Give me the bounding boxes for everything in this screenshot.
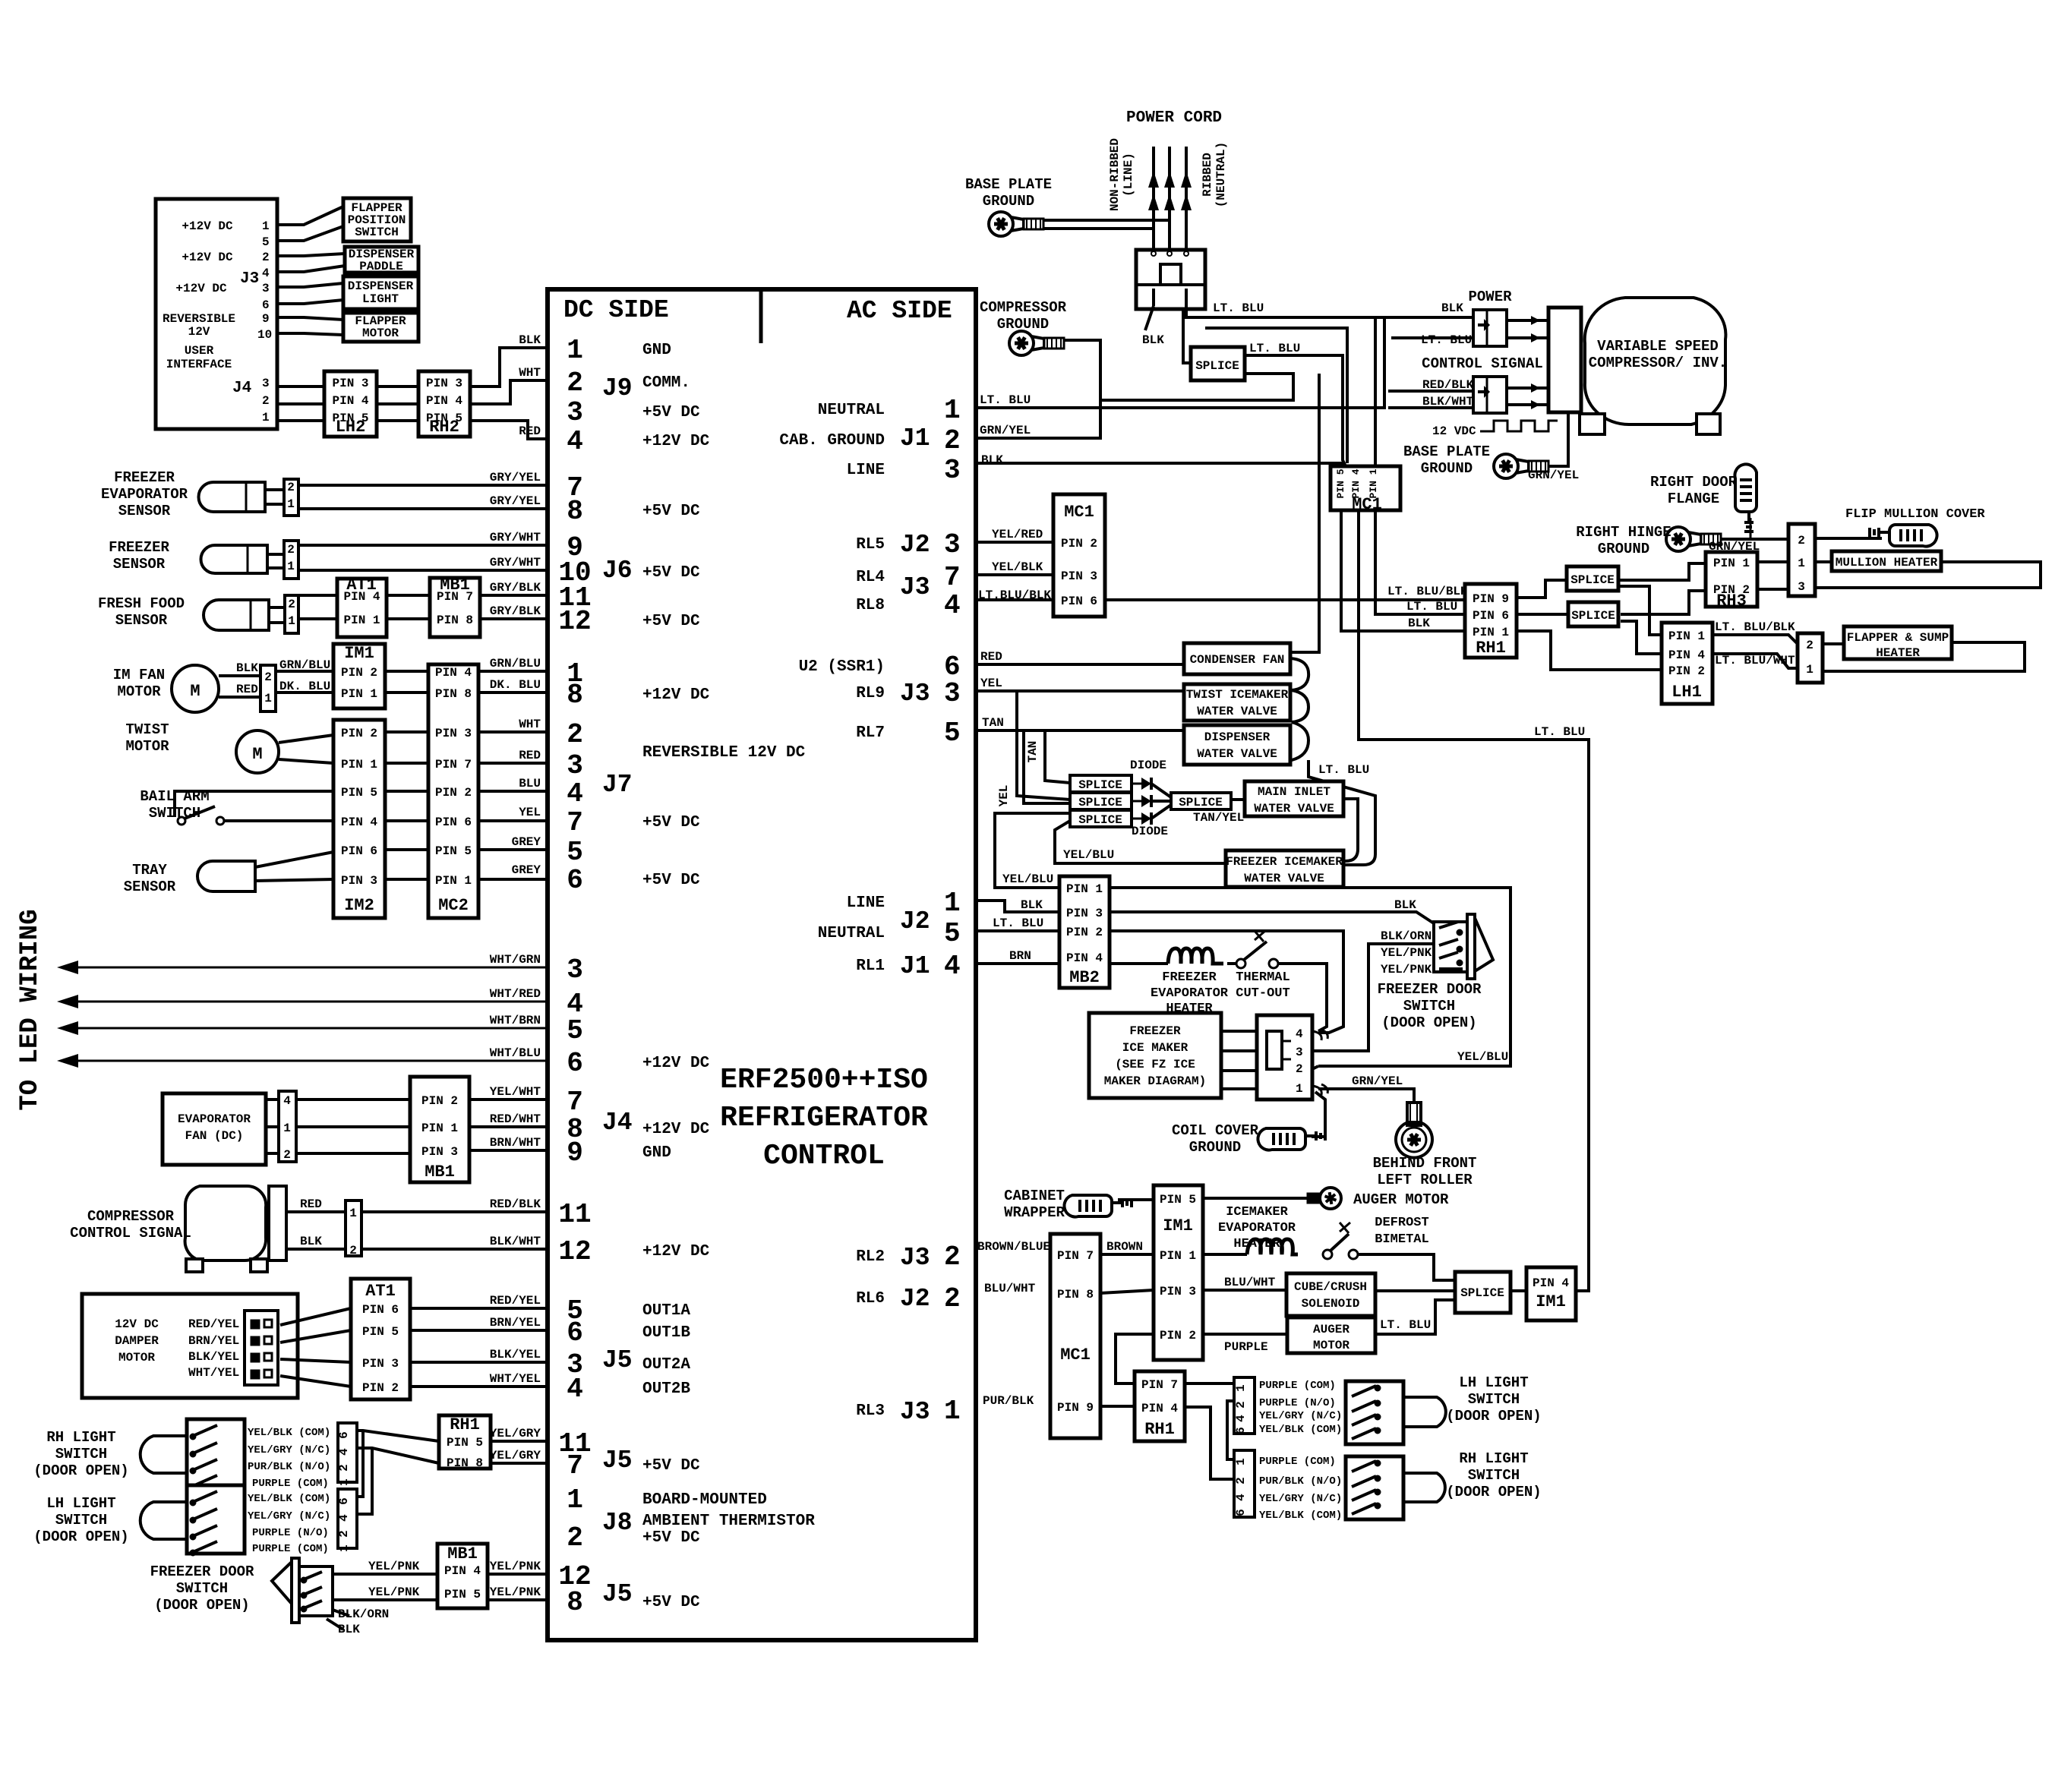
splice to RH3 PIN1 wire [1618,563,1706,580]
svg-text:12V DC: 12V DC [115,1317,159,1331]
svg-text:IM2: IM2 [344,896,374,915]
svg-text:RL4: RL4 [856,569,885,586]
svg-text:+5V DC: +5V DC [642,404,700,421]
wires J3 to flapper/dispenser boxes [277,207,343,225]
svg-text:PIN 1: PIN 1 [435,874,472,888]
svg-text:2: 2 [1234,1477,1248,1484]
svg-text:BRN/WHT: BRN/WHT [490,1136,541,1150]
svg-text:RED: RED [300,1197,322,1211]
svg-text:PIN 6: PIN 6 [435,816,472,829]
wire MB2 PIN1 YEL/BLU loop around freezer door switch [1110,888,1510,1066]
svg-text:GRN/YEL: GRN/YEL [1528,469,1579,482]
connector IM1 (bottom) [1154,1185,1203,1360]
wire auger motor to splice via LT.BLU [1375,1300,1455,1334]
svg-text:MB1: MB1 [447,1544,478,1563]
svg-text:MOTOR: MOTOR [117,683,161,700]
svg-text:BASE PLATE: BASE PLATE [965,176,1052,193]
RH light switch box right side [1346,1456,1403,1519]
svg-text:TAN: TAN [982,716,1004,730]
dispenser water valve box [1184,725,1290,765]
svg-text:RED/YEL: RED/YEL [490,1294,541,1308]
svg-text:RED/YEL: RED/YEL [188,1317,239,1331]
svg-text:WHT: WHT [519,718,541,731]
svg-text:SWITCH: SWITCH [55,1512,107,1529]
svg-text:LT. BLU/BLK: LT. BLU/BLK [1387,585,1468,598]
wire RH1 PIN1 BLK to LH1 PIN2 [1516,631,1662,670]
svg-text:PIN 6: PIN 6 [1473,609,1509,623]
svg-text:4: 4 [1234,1415,1248,1422]
svg-text:(LINE): (LINE) [1122,153,1135,197]
svg-text:NON-RIBBED: NON-RIBBED [1108,138,1122,211]
connector RH2 [418,371,470,437]
svg-text:12: 12 [558,606,591,637]
wire bail arm to IM2 PIN4 [224,819,333,822]
third splice feed from TAN row [1024,730,1070,803]
power cord wires with arrows [1152,147,1155,250]
svg-text:PIN 1: PIN 1 [421,1122,458,1135]
svg-text:BIMETAL: BIMETAL [1375,1232,1428,1247]
wire RH1 PIN4 down to RH switch slot2 [1185,1407,1234,1479]
svg-text:RH1: RH1 [1476,639,1506,658]
svg-text:3: 3 [262,282,270,295]
svg-text:12: 12 [558,1236,591,1267]
svg-text:J3: J3 [900,680,930,708]
svg-text:1: 1 [1798,557,1805,570]
svg-text:+5V DC: +5V DC [642,872,700,889]
svg-text:+12V DC: +12V DC [182,251,233,264]
svg-text:WHT: WHT [519,366,541,380]
svg-text:DIODE: DIODE [1130,759,1166,772]
icemaker connector stubs [1312,1030,1327,1040]
connector IM2 tall [333,720,385,918]
svg-text:6: 6 [262,298,270,312]
svg-text:MOTOR: MOTOR [362,327,399,340]
wires fan to connector [266,1098,279,1101]
svg-text:U2 (SSR1): U2 (SSR1) [799,658,885,676]
LH light switch bulb [140,1502,187,1539]
svg-text:CONDENSER FAN: CONDENSER FAN [1190,653,1285,667]
svg-text:CONTROL SIGNAL: CONTROL SIGNAL [70,1225,191,1241]
svg-text:3: 3 [1798,580,1805,594]
svg-text:IM1: IM1 [344,644,374,663]
svg-text:+5V DC: +5V DC [642,564,700,582]
2/1/3 connector mullion [1788,524,1815,596]
svg-text:2: 2 [567,1522,583,1554]
svg-text:GROUND: GROUND [1189,1139,1241,1156]
svg-text:PIN 3: PIN 3 [1066,907,1103,920]
svg-text:FREEZER: FREEZER [1162,970,1217,985]
svg-text:2: 2 [287,543,295,557]
svg-text:J9: J9 [602,374,633,402]
svg-text:GRY/YEL: GRY/YEL [490,494,541,508]
mullion heater box [1832,551,1941,571]
wire RL9 YEL row to twist valve + splice branch [976,689,1184,693]
freezer door switch right symbol [1467,914,1475,979]
wire MB2 PIN4 BRN to freezer evaporator heater [1110,962,1168,965]
compressor blob feet [1580,414,1605,434]
LED wire 5 WHT/BRN with arrow [72,1027,548,1030]
diode splice row 1 [1070,775,1132,792]
svg-text:1: 1 [944,1396,961,1427]
svg-text:REFRIGERATOR: REFRIGERATOR [720,1102,928,1134]
wire LH1 PIN4 LT.BLU/WHT to 2/1 slot1 [1712,654,1798,668]
svg-text:SWITCH: SWITCH [55,1446,107,1462]
svg-text:2: 2 [1296,1062,1303,1076]
freezer evaporator heater coil [1168,948,1223,964]
svg-text:RED: RED [519,424,541,438]
svg-text:4: 4 [262,267,270,280]
svg-text:SOLENOID: SOLENOID [1302,1297,1360,1311]
svg-text:6: 6 [337,1431,351,1439]
svg-text:SENSOR: SENSOR [118,503,171,519]
svg-text:RH LIGHT: RH LIGHT [1459,1450,1528,1467]
LH switch slot column 6/4/2/1 [338,1489,357,1548]
connector RH1 (light switches) [439,1415,491,1469]
svg-text:PURPLE (COM): PURPLE (COM) [1259,1456,1336,1468]
svg-text:PIN 1: PIN 1 [341,687,377,701]
wire pin1 to coil cover ground [1312,1092,1325,1137]
svg-text:SPLICE: SPLICE [1078,796,1122,809]
svg-text:POWER CORD: POWER CORD [1126,109,1222,127]
splice box 1 right [1567,566,1618,591]
connector MC2 tall [428,664,478,918]
svg-text:RL7: RL7 [856,724,885,742]
svg-text:PIN 4: PIN 4 [1668,648,1705,662]
svg-text:ERF2500++ISO: ERF2500++ISO [720,1064,928,1096]
svg-text:WHT/BRN: WHT/BRN [490,1014,541,1027]
svg-text:J1: J1 [900,424,930,453]
bail arm switch symbol [175,791,333,817]
wire purple branch to RH1 PIN7 [1116,1334,1154,1383]
svg-text:LH LIGHT: LH LIGHT [46,1495,115,1512]
svg-text:PIN 5: PIN 5 [1335,469,1346,498]
flapper position switch box [343,198,411,241]
svg-text:MC1: MC1 [1064,503,1094,522]
svg-text:PIN 4: PIN 4 [341,816,377,829]
svg-text:IM1: IM1 [1536,1292,1566,1311]
svg-text:DC SIDE: DC SIDE [563,296,669,324]
svg-text:TO LED WIRING: TO LED WIRING [16,909,45,1110]
svg-text:2: 2 [287,481,295,494]
svg-text:YEL/BLU: YEL/BLU [1002,872,1053,886]
wire NEUTRAL J2-5 LT.BLU to MB2 PIN2 [976,929,1059,932]
svg-text:IM1: IM1 [1163,1216,1193,1235]
svg-text:6: 6 [567,1317,583,1349]
svg-text:DISPENSER: DISPENSER [1204,730,1271,744]
wires connector to MB1 [296,1098,410,1101]
svg-text:BLK: BLK [236,661,258,675]
svg-text:FLANGE: FLANGE [1668,491,1719,507]
wire LINE J2-1 BLK to MB2 PIN3 [976,901,1059,912]
svg-text:POWER: POWER [1468,289,1512,305]
svg-text:PIN 7: PIN 7 [1141,1378,1178,1392]
svg-text:MC2: MC2 [438,896,469,915]
svg-text:2: 2 [262,394,270,408]
flip mullion cover strap [1870,525,1937,547]
svg-text:PIN 1: PIN 1 [1473,626,1509,639]
connector MC1 bottom [1050,1234,1100,1438]
wires MB1 to board J4 [469,1098,548,1101]
svg-text:REVERSIBLE 12V DC: REVERSIBLE 12V DC [642,744,806,762]
freezer evaporator sensor connector 2/1 [284,479,298,516]
svg-text:J2: J2 [900,531,930,559]
svg-text:FREEZER: FREEZER [114,469,175,486]
svg-text:6: 6 [1234,1427,1248,1434]
svg-text:J3: J3 [900,573,930,601]
svg-text:GROUND: GROUND [983,193,1034,210]
wire RL8 LT.BLU/BLK row to RH1 PIN9 (passes MC1 left box) [976,598,1465,601]
svg-text:1: 1 [349,1207,357,1220]
svg-text:J4: J4 [602,1109,633,1137]
svg-text:SPLICE: SPLICE [1571,609,1615,623]
svg-text:DK. BLU: DK. BLU [490,678,541,692]
svg-text:ICE MAKER: ICE MAKER [1122,1041,1188,1055]
svg-text:BLK: BLK [338,1623,360,1636]
svg-text:LH LIGHT: LH LIGHT [1459,1374,1528,1391]
wire MB2 PIN2 LT.BLU down right [1110,931,1343,1033]
CONTROL connector symbol [1473,377,1507,413]
svg-text:GRN/YEL: GRN/YEL [1352,1074,1403,1088]
svg-text:COMPRESSOR: COMPRESSOR [980,299,1067,316]
wires IM2 to MC2 rows [385,730,428,734]
svg-text:PIN 8: PIN 8 [1057,1288,1094,1301]
wires IM connector to IM1 box [276,670,333,673]
svg-text:YEL: YEL [980,677,1002,690]
svg-text:PIN 3: PIN 3 [421,1145,458,1159]
svg-text:PIN 3: PIN 3 [1160,1285,1196,1298]
svg-text:(SEE FZ ICE: (SEE FZ ICE [1115,1058,1195,1071]
svg-text:YEL/BLK (COM): YEL/BLK (COM) [1259,1424,1342,1436]
wire pin3 to FDS BLK/ORN vertical [1312,944,1434,1051]
svg-text:+12V DC: +12V DC [642,1055,710,1072]
svg-text:TWIST: TWIST [125,721,169,738]
svg-text:YEL/GRY (N/C): YEL/GRY (N/C) [1259,1493,1342,1505]
svg-text:TWIST ICEMAKER: TWIST ICEMAKER [1186,688,1289,702]
wire plug to POWER connector (LT. BLU / BLK) [1186,306,1473,317]
svg-text:YEL/RED: YEL/RED [992,528,1043,541]
dispenser paddle box [345,247,418,273]
svg-text:PIN 6: PIN 6 [362,1303,399,1317]
svg-text:AMBIENT THERMISTOR: AMBIENT THERMISTOR [642,1513,815,1530]
svg-text:4: 4 [337,1448,351,1456]
wire defrost bimetal to splice [1358,1254,1455,1280]
svg-text:ICEMAKER: ICEMAKER [1226,1205,1288,1219]
svg-text:MOTOR: MOTOR [125,738,169,755]
svg-text:LINE: LINE [847,462,885,479]
svg-text:RL1: RL1 [856,958,885,975]
svg-text:LT. BLU/BLK: LT. BLU/BLK [1715,620,1795,634]
svg-text:RH3: RH3 [1716,592,1747,610]
behind front left roller ground bulb [1407,1103,1421,1125]
svg-text:PIN 2: PIN 2 [1061,537,1097,551]
svg-text:1: 1 [262,219,270,233]
svg-text:BLK: BLK [1408,617,1430,630]
wire cabinet wrapper to IM1 PIN5 [1118,1198,1154,1201]
wire pin1 GRN/YEL to roller ground [1318,1089,1414,1103]
diode splice row 3 [1070,810,1132,827]
LED wire 3 WHT/GRN with arrow [72,967,548,969]
svg-text:2: 2 [567,368,583,399]
svg-text:YEL/GRY (N/C): YEL/GRY (N/C) [248,1444,330,1456]
svg-text:GRN/YEL: GRN/YEL [980,424,1031,437]
wire IM1 PIN5 to auger motor symbol [1203,1197,1319,1200]
svg-text:BLK: BLK [1441,301,1463,315]
svg-text:YEL/BLK (COM): YEL/BLK (COM) [1259,1510,1342,1522]
power plug box [1136,250,1205,309]
svg-text:WHT/BLU: WHT/BLU [490,1046,541,1060]
svg-text:LT. BLU: LT. BLU [1249,342,1300,355]
wires ice maker to 4-pin connector [1221,1030,1257,1033]
splice box 2 right [1568,602,1618,626]
wires CONTROL to inverter box [1507,386,1548,390]
svg-text:4: 4 [567,1374,583,1405]
mullion heater right loop back to slot3 [1815,562,2041,588]
svg-text:CAB. GROUND: CAB. GROUND [779,432,885,450]
svg-text:+5V DC: +5V DC [642,613,700,630]
icemaker 4-pin connector [1257,1015,1312,1099]
svg-text:RED: RED [519,749,541,762]
svg-text:SWITCH: SWITCH [176,1580,228,1597]
twist motor M circle [236,730,279,773]
svg-text:(DOOR OPEN): (DOOR OPEN) [33,1462,128,1479]
svg-text:2: 2 [283,1148,291,1162]
svg-text:NEUTRAL: NEUTRAL [818,402,885,419]
wire IM1 PIN1 heater coil + defrost bimetal [1203,1253,1247,1256]
svg-text:RL6: RL6 [856,1290,885,1308]
svg-text:BROWN: BROWN [1106,1240,1143,1254]
wires POWER to inverter box [1507,319,1548,322]
wire splice to MC1 top PIN5 [1245,355,1346,466]
svg-text:NEUTRAL: NEUTRAL [818,925,885,942]
svg-text:5: 5 [567,837,583,868]
wavy brace joining valve boxes right edges [1290,658,1308,760]
svg-text:PIN 5: PIN 5 [444,1588,481,1601]
wire splice2 lower branch to LH1 PIN4 [1621,621,1662,654]
freezer sensor connector 2/1 [284,541,298,579]
svg-text:GND: GND [642,342,671,359]
fan connector 4/1/2 [279,1091,296,1162]
RH light switch bulb [140,1436,187,1473]
svg-text:USER: USER [185,344,214,358]
wires damper to AT1 diagonal fan [280,1308,351,1325]
svg-text:LT. BLU: LT. BLU [980,393,1031,407]
freezer sensor bulb [201,545,268,573]
splice feed vertical from top splice area to condenser fan [1292,374,1319,652]
svg-text:4: 4 [567,426,583,457]
IM fan motor M circle [172,665,219,712]
svg-text:YEL/GRY (N/C): YEL/GRY (N/C) [1259,1410,1342,1422]
svg-text:PIN 2: PIN 2 [341,727,377,740]
svg-text:MOTOR: MOTOR [118,1351,155,1365]
svg-text:DIODE: DIODE [1132,825,1168,838]
svg-text:1: 1 [287,497,295,511]
svg-text:OUT2A: OUT2A [642,1356,690,1374]
wire hinge ground to 2-slot connector [1721,538,1788,541]
svg-text:PUR/BLK (N/O): PUR/BLK (N/O) [1259,1475,1342,1488]
svg-text:8: 8 [567,496,583,527]
svg-text:J6: J6 [602,557,633,585]
svg-text:MB2: MB2 [1069,968,1100,987]
compressor feet [186,1259,203,1272]
svg-text:PIN 3: PIN 3 [341,874,377,888]
svg-text:PIN 3: PIN 3 [332,377,368,390]
svg-text:1: 1 [1234,1458,1248,1465]
svg-text:MC1: MC1 [1060,1346,1091,1365]
freezer door switch symbol [292,1558,299,1623]
wires twist motor to IM2 [279,735,333,743]
svg-text:MOTOR: MOTOR [1313,1339,1349,1352]
svg-text:7: 7 [567,807,583,838]
svg-text:RED: RED [980,650,1002,664]
svg-text:J3: J3 [240,270,259,288]
thermal cut-out switch [1227,962,1236,965]
fresh food sensor connector 2/1 [285,595,298,633]
svg-text:COIL COVER: COIL COVER [1172,1122,1259,1139]
svg-text:GREY: GREY [512,863,541,877]
svg-text:PIN 3: PIN 3 [1061,569,1097,583]
wire RL7 TAN row to dispenser valve + splice branch [976,729,1184,732]
svg-text:PIN 4: PIN 4 [444,1564,481,1578]
wires base plate ground to plug [1043,220,1170,250]
wire LT.BLU to power connector lower pin [1391,336,1473,339]
svg-text:EVAPORATOR: EVAPORATOR [101,486,188,503]
svg-text:FLAPPER & SUMP: FLAPPER & SUMP [1847,631,1949,645]
svg-text:YEL/BLK: YEL/BLK [992,560,1043,574]
right door flange strap (vertical) [1735,464,1757,532]
LH switch bulb [1403,1397,1446,1427]
svg-text:PIN 7: PIN 7 [435,758,472,771]
svg-text:PIN 9: PIN 9 [1473,592,1509,606]
svg-text:MC1: MC1 [1352,495,1382,514]
svg-text:COMPRESSOR/ INV.: COMPRESSOR/ INV. [1589,355,1727,371]
svg-text:PIN 4: PIN 4 [1533,1276,1569,1290]
svg-text:8: 8 [567,1587,583,1618]
svg-text:FREEZER ICEMAKER: FREEZER ICEMAKER [1226,855,1343,869]
wire CAB GROUND GRN/YEL row2 [976,400,1100,438]
svg-text:PIN 2: PIN 2 [341,666,377,680]
svg-text:RED: RED [236,683,258,696]
svg-text:3: 3 [567,750,583,781]
svg-text:PIN 5: PIN 5 [435,844,472,858]
svg-text:GROUND: GROUND [1598,541,1649,557]
svg-text:PIN 5: PIN 5 [341,786,377,800]
svg-text:SPLICE: SPLICE [1179,796,1223,809]
svg-text:PIN 3: PIN 3 [426,377,462,390]
wire splice1 lower branch to LH1 PIN1 [1618,586,1662,635]
wires freezer sensor to J6 9/10 [267,553,284,556]
svg-text:PIN 1: PIN 1 [1160,1249,1196,1263]
svg-text:TAN: TAN [1026,741,1040,763]
svg-text:SENSOR: SENSOR [124,879,176,895]
wire base plate ground 2 to inverter [1548,412,1568,466]
svg-text:2: 2 [337,1464,351,1472]
svg-text:1: 1 [337,1478,351,1486]
svg-text:SPLICE: SPLICE [1570,573,1615,587]
svg-text:MULLION HEATER: MULLION HEATER [1836,556,1938,569]
svg-text:GRY/BLK: GRY/BLK [490,581,541,595]
svg-text:SPLICE: SPLICE [1078,813,1122,827]
twist icemaker water valve box [1184,684,1290,721]
condenser fan box [1184,643,1290,674]
svg-text:J7: J7 [602,771,633,799]
svg-text:+12V DC: +12V DC [642,1121,710,1138]
right hinge ground lug [1666,527,1721,551]
svg-text:YEL/BLK (COM): YEL/BLK (COM) [248,1493,330,1505]
svg-text:FREEZER DOOR: FREEZER DOOR [1378,981,1482,998]
svg-text:MB1: MB1 [425,1163,455,1182]
YEL/BLU wire to freezer icemaker valve [1055,821,1226,863]
svg-text:LT. BLU: LT. BLU [1380,1318,1431,1332]
